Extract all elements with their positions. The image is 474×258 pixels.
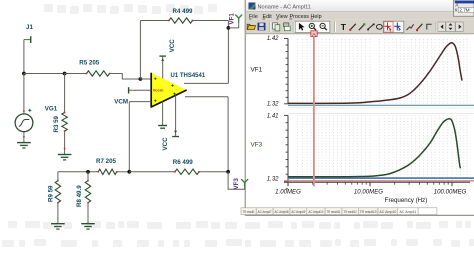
svg-text:1.32: 1.32 [267, 176, 279, 182]
svg-text:R6 499: R6 499 [173, 159, 194, 166]
svg-text:R3 59: R3 59 [53, 115, 60, 132]
svg-text:R4 499: R4 499 [173, 8, 194, 15]
svg-text:AC Amp10: AC Amp10 [379, 210, 396, 214]
wire F to R8 [87, 172, 89, 181]
svg-text:J1: J1 [26, 24, 33, 31]
wire out+ [185, 96, 228, 98]
toolbar: open [247, 24, 255, 29]
svg-text:VCC: VCC [162, 137, 169, 151]
wire rail to R9 [57, 172, 59, 181]
wire R3 to ground [64, 131, 66, 154]
probe VF3 [241, 179, 248, 187]
node C junction [139, 77, 143, 81]
probe VF1 [235, 15, 242, 23]
VF3 curve [288, 119, 461, 177]
svg-text:AC Amp#10: AC Amp#10 [308, 210, 323, 214]
svg-text:VF1: VF1 [251, 66, 263, 73]
feedback wire up [139, 21, 141, 80]
cursor grab marker [311, 31, 317, 37]
toolbar: paste [284, 23, 289, 27]
ground under R3 [58, 154, 72, 156]
svg-text:VF3: VF3 [233, 178, 240, 190]
toolbar separators [269, 22, 271, 32]
resistor R9 [55, 181, 60, 203]
wire out- to D column [184, 82, 228, 84]
svg-text:R7 205: R7 205 [96, 158, 117, 165]
svg-text:Vocm: Vocm [153, 88, 164, 93]
VCC pin up [162, 56, 164, 78]
resistor R8 [85, 181, 90, 203]
svg-text:X: X [455, 8, 458, 13]
pane separator lines [288, 107, 474, 109]
svg-text:AC Amp#9: AC Amp#9 [291, 210, 305, 214]
svg-text:1.32: 1.32 [267, 102, 279, 108]
plot gridlines [297, 39, 467, 182]
toolbar: select/zoom group [295, 21, 330, 32]
x axis [284, 181, 470, 183]
svg-text:TR result12: TR result12 [344, 210, 357, 214]
svg-text:1.42: 1.42 [267, 36, 279, 42]
toolbar: cursor group [383, 21, 403, 32]
ground under op-amp [158, 125, 167, 127]
toolbar: marker icons [407, 24, 414, 30]
VCC pin down [175, 95, 177, 136]
Vocm wire + VCM terminal [129, 89, 152, 91]
VG1 ground stub [23, 132, 25, 143]
svg-text:VF3: VF3 [251, 141, 263, 148]
op-amp U1 THS4541 [151, 73, 187, 107]
svg-text:R8 49.9: R8 49.9 [76, 185, 83, 207]
svg-text:Frequency (Hz): Frequency (Hz) [385, 197, 428, 204]
node G junction [127, 170, 131, 174]
toolbar: pen icons [350, 24, 356, 30]
toolbar: line tool [368, 24, 374, 29]
svg-text:U1 THS4541: U1 THS4541 [171, 73, 206, 79]
top plot cursor line [288, 104, 474, 106]
svg-text:Process: Process [290, 14, 310, 20]
svg-text:Noname - AC Ampl11: Noname - AC Ampl11 [258, 5, 311, 11]
wire A to B [24, 73, 65, 75]
node F junction [86, 170, 90, 174]
toolbar: copy [273, 23, 278, 29]
node D junction [227, 26, 231, 30]
svg-text:1.41: 1.41 [267, 113, 279, 119]
red vertical cursor [313, 37, 315, 186]
toolbar: save [258, 23, 265, 30]
svg-text:AC Amp#7: AC Amp#7 [258, 210, 272, 214]
menu bar [246, 12, 474, 20]
svg-text:VCC: VCC [169, 39, 176, 53]
resistor R4 [169, 18, 193, 23]
ground pin below op-amp [162, 101, 164, 125]
toolbar: ellipse tool [377, 24, 383, 29]
wire R4 to node D [193, 20, 229, 22]
voltage source VG1 wire [23, 74, 25, 114]
resistor R6 [175, 169, 199, 174]
connector J1 [24, 39, 30, 41]
svg-text:TR result1: TR result1 [243, 210, 255, 214]
wire C to +input [140, 78, 152, 80]
ground under VG1 [17, 142, 31, 144]
svg-text:VF1: VF1 [229, 13, 236, 25]
svg-text:AC Amp#8: AC Amp#8 [275, 210, 289, 214]
toolbar: spinners [438, 22, 446, 31]
node E junction [226, 170, 230, 174]
wire to probe VF1 [228, 22, 238, 28]
VG1 plus sign [28, 109, 31, 111]
toolbar: corner icon [427, 24, 432, 29]
resistor R5 [87, 71, 110, 76]
ground under R9 [51, 223, 65, 225]
node B junction [63, 72, 67, 76]
bottom rail [58, 171, 99, 173]
red horizontal cursor line [284, 180, 474, 182]
wire to probe VF3 [228, 172, 245, 189]
wire G to R6 [129, 171, 175, 173]
svg-text:TR result11: TR result11 [327, 210, 341, 214]
svg-text:TR result13: TR result13 [360, 210, 377, 214]
floating cursor panel [454, 0, 474, 16]
svg-text:AC Amp11: AC Amp11 [399, 210, 416, 214]
wire R5 to elbow [110, 74, 141, 80]
resistor R3 [62, 113, 67, 132]
wire R7 to G [117, 171, 130, 173]
red terminal marks [23, 20, 200, 204]
wire R6 to node E [199, 171, 228, 173]
resistor R7 [98, 169, 117, 174]
toolbar [246, 20, 474, 34]
svg-text:T: T [341, 22, 347, 32]
svg-text:1.00MEG: 1.00MEG [275, 188, 301, 195]
window icon [249, 3, 256, 10]
top plot y-axis [287, 39, 289, 105]
-input wire [129, 101, 151, 103]
svg-text:VG1: VG1 [45, 105, 58, 112]
svg-text:10.00MEG: 10.00MEG [354, 188, 383, 195]
svg-text:R5 205: R5 205 [79, 60, 100, 67]
svg-text:VCM: VCM [114, 98, 128, 105]
svg-text:2.7M: 2.7M [459, 8, 469, 13]
ground under R8 [81, 223, 95, 225]
bottom plot y-axis [287, 115, 289, 182]
svg-text:R9 59: R9 59 [48, 185, 55, 202]
node A junction [22, 72, 26, 76]
wire B to R5 [65, 73, 87, 75]
analysis window frame [245, 0, 474, 216]
wire B down to R3 [64, 74, 66, 114]
bottom tab strip [241, 207, 437, 209]
blue cursor line [288, 177, 474, 179]
svg-text:100.00MEG: 100.00MEG [434, 188, 467, 195]
wire J1 down [23, 40, 25, 74]
voltage source VG1 [15, 114, 33, 132]
VF1 curve [288, 43, 462, 104]
